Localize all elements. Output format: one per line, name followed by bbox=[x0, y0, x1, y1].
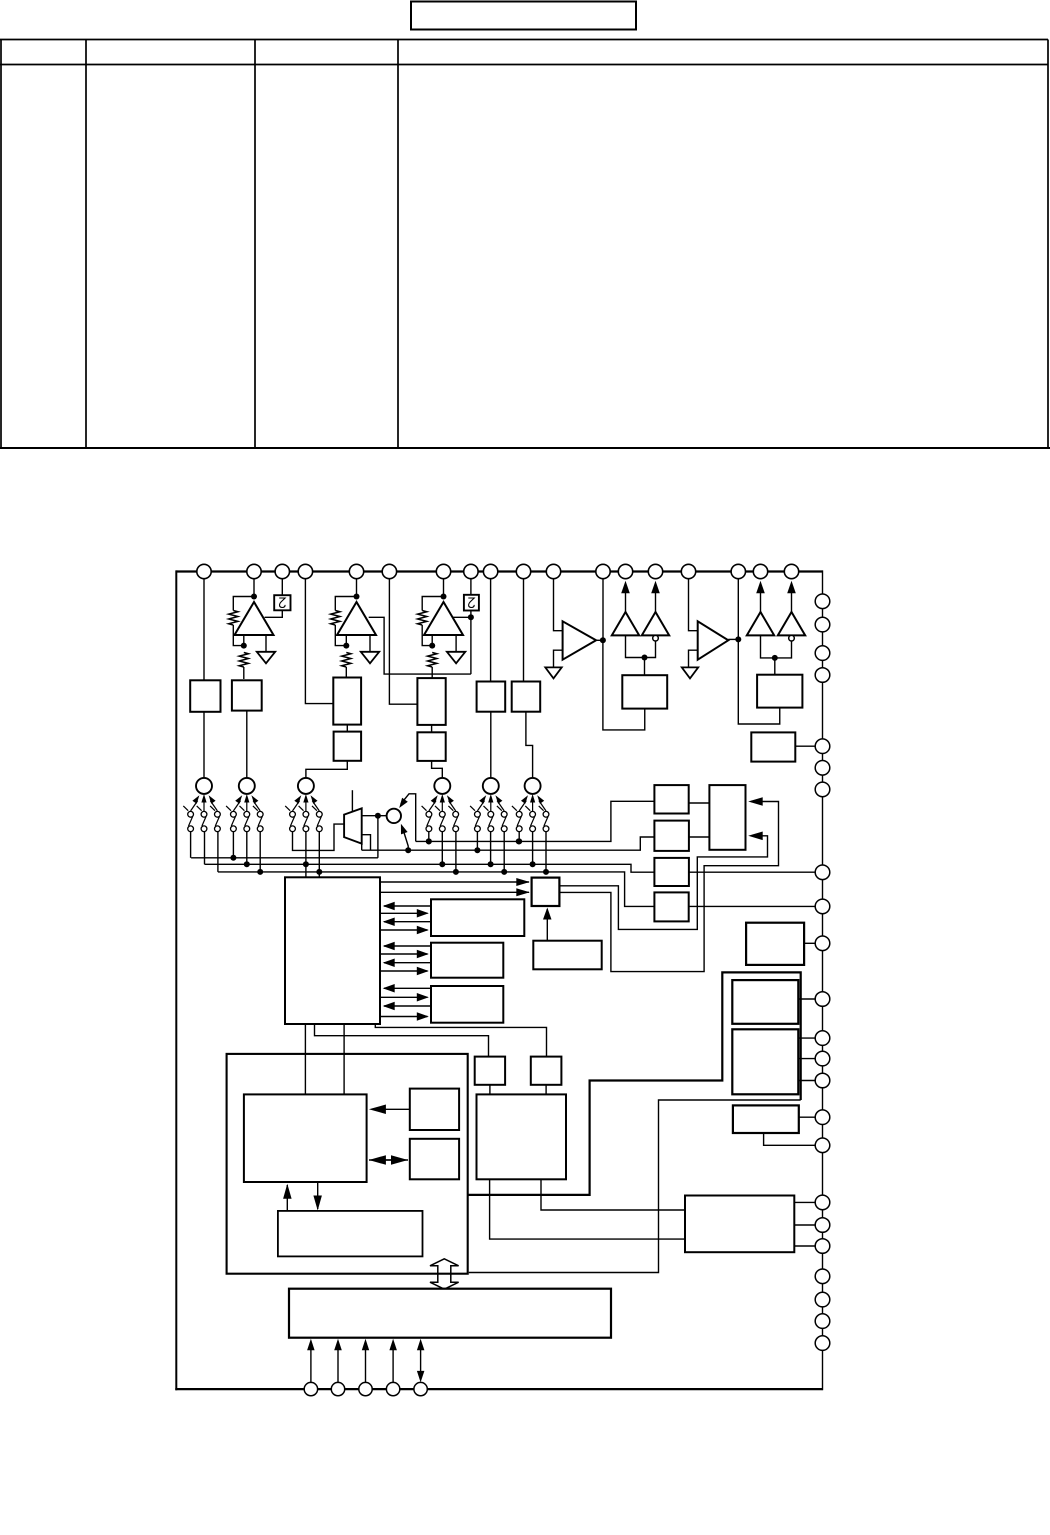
wire W to Y a bbox=[541, 1179, 685, 1210]
wire driver arrow left bbox=[625, 593, 627, 612]
selector switch at x=246.8 bbox=[226, 778, 263, 832]
wire join to block bbox=[774, 658, 776, 675]
node buffer A2 output bbox=[735, 636, 741, 642]
wire E to pin bbox=[689, 905, 816, 907]
wire buffer A2 output bbox=[728, 638, 738, 640]
wire S3 left contact to mux bbox=[293, 824, 345, 850]
wire J to M arrow 2 bbox=[380, 970, 428, 972]
wire B4 to switch S3 bbox=[306, 761, 347, 778]
wire pin 10 drop bbox=[523, 572, 525, 682]
block H2 bbox=[732, 1029, 798, 1094]
block V bbox=[475, 1057, 505, 1085]
node mux output bbox=[375, 813, 381, 819]
wire J to N arrow bbox=[380, 996, 428, 998]
block B4 bbox=[334, 732, 362, 761]
wire J to K arrow 1 bbox=[380, 881, 529, 883]
wire monitor to pin bbox=[795, 745, 815, 747]
wire J to V route bbox=[315, 1024, 489, 1057]
wire U to W bbox=[545, 1085, 547, 1095]
wire feedback bottom bbox=[422, 625, 432, 646]
wire A to B bbox=[689, 802, 710, 804]
selector switch at x=204.0 bbox=[183, 778, 220, 832]
ground bbox=[257, 652, 275, 664]
wire B1 to switch S1 bbox=[203, 712, 205, 778]
ground bbox=[545, 667, 561, 678]
block R bbox=[410, 1089, 459, 1130]
wire J to N arrow 2 bbox=[380, 1016, 428, 1018]
wire O to K arrow bbox=[546, 909, 548, 941]
title box bbox=[411, 2, 636, 30]
wire resistor to block bbox=[345, 667, 347, 679]
left border wire bbox=[175, 570, 177, 1390]
node op-amp top junction bbox=[251, 594, 257, 600]
wire driver join bbox=[626, 635, 656, 657]
wire J to M arrow bbox=[380, 953, 428, 955]
wire S4 contacts to buses bbox=[428, 832, 430, 842]
block E bbox=[654, 892, 688, 921]
block Z host interface bbox=[289, 1289, 611, 1338]
wire W to Y b bbox=[490, 1179, 685, 1239]
block B6 bbox=[417, 732, 445, 761]
wire J to Q a bbox=[304, 1024, 306, 1094]
block B tall bbox=[709, 785, 745, 850]
wire Y to pin a bbox=[794, 1201, 815, 1203]
wire mux output bbox=[362, 815, 387, 817]
block T ram bbox=[278, 1211, 423, 1257]
node driver join bbox=[772, 655, 778, 661]
block W bbox=[477, 1094, 567, 1179]
wire driver arrow left bbox=[760, 593, 762, 612]
wire S3 contacts to DSP bbox=[305, 832, 307, 878]
divider box 1/2 for U3 bbox=[464, 595, 479, 611]
wire Q to T arrow down bbox=[317, 1182, 319, 1196]
block A bbox=[654, 785, 688, 813]
wire mode throw 1 bbox=[401, 794, 416, 842]
wire feedback top bbox=[422, 597, 443, 611]
wire buffer - input to ground bbox=[554, 650, 563, 667]
driver amplifier left bbox=[612, 612, 639, 635]
pins top row bbox=[197, 564, 799, 578]
op-amp amplifier triangle bbox=[424, 602, 463, 635]
wire pin to op-amp input node bbox=[356, 572, 358, 597]
wire L to J arrow bbox=[384, 905, 431, 907]
resistor input bbox=[342, 653, 351, 668]
mode switch circle bbox=[387, 809, 401, 823]
wire buffer + input bbox=[689, 572, 698, 631]
block B2 bbox=[232, 680, 262, 710]
block O oscillator bbox=[533, 941, 601, 970]
wire J to L arrow bbox=[380, 912, 428, 914]
wire G to pin bbox=[804, 942, 815, 944]
resistor feedback bbox=[418, 611, 427, 626]
block driver source bbox=[622, 675, 667, 708]
wire M to J arrow 2 bbox=[384, 962, 431, 964]
bottom bus rail bbox=[175, 1388, 822, 1390]
pins right column bbox=[815, 594, 830, 1350]
wire pin 1 drop bbox=[203, 572, 205, 681]
wire C to B bbox=[689, 836, 710, 838]
wire buffer A1 output bbox=[596, 639, 603, 641]
wire Y to pin b bbox=[794, 1224, 815, 1226]
node buffer A1 output bbox=[600, 637, 606, 643]
wire H1 to pin bbox=[798, 998, 815, 1000]
right pin column wire bbox=[822, 570, 824, 1343]
wire B7 to switch S5 bbox=[490, 712, 492, 778]
block Y bbox=[685, 1196, 794, 1253]
divider box 1/2 for U1 bbox=[274, 595, 290, 610]
selector switch at x=532.6 bbox=[512, 778, 549, 832]
block H1 bbox=[732, 980, 798, 1024]
block G bbox=[746, 923, 804, 965]
block M bbox=[431, 943, 503, 978]
bus line L0 to block A bbox=[416, 801, 655, 841]
block S bbox=[410, 1139, 459, 1180]
inverter bubble bbox=[653, 635, 659, 641]
wire B5 to B6 bbox=[431, 725, 433, 732]
wire bottom-right riser bbox=[822, 1350, 824, 1390]
wire B2 to switch S2 bbox=[246, 711, 248, 778]
wire B3 to B4 bbox=[346, 725, 348, 732]
node inverting input bbox=[429, 643, 435, 649]
wire ground stub bbox=[369, 635, 371, 652]
parts table frame bbox=[0, 40, 1050, 449]
resistor input bbox=[239, 653, 248, 668]
wire mode throw 2 bbox=[403, 828, 409, 850]
wire H2 to pin c bbox=[798, 1080, 815, 1082]
block Q cpu bbox=[244, 1094, 367, 1182]
resistor feedback bbox=[229, 611, 238, 626]
block monitor D2 bbox=[751, 732, 795, 761]
wire pin 16 to node bbox=[737, 572, 739, 640]
wire block loop to output pin bbox=[738, 640, 779, 724]
wire R to Q arrow bbox=[372, 1108, 410, 1110]
wire buffer + input bbox=[554, 572, 563, 631]
bus line L2 short bbox=[191, 857, 378, 859]
wire Z pin double arrow bbox=[420, 1349, 422, 1371]
wire S5 contacts to buses bbox=[476, 832, 478, 851]
block B5 bbox=[417, 678, 445, 725]
wire pin 12 to node bbox=[602, 572, 604, 641]
wire mux node to bus L2 bbox=[377, 816, 379, 858]
wire S6 contacts to buses bbox=[518, 832, 520, 842]
op-amp amplifier triangle bbox=[235, 602, 274, 635]
wire pin 4 to block B3 bbox=[305, 572, 333, 704]
wire driver join bbox=[761, 635, 792, 658]
wire J to Q b bbox=[343, 1024, 345, 1094]
block H outer boundary bbox=[468, 972, 801, 1195]
wire pin to divider U3 bbox=[470, 572, 472, 595]
bus line L4 to block E bbox=[218, 872, 655, 907]
wire driver arrow right bbox=[655, 593, 657, 612]
wire S1 contacts to buses bbox=[190, 832, 192, 858]
wire Q S double arrow bbox=[384, 1159, 394, 1161]
wire Z pin arrows bbox=[310, 1349, 312, 1383]
wire X bottom to pin bbox=[764, 1133, 816, 1145]
wire feedback top bbox=[335, 597, 356, 611]
power bus top rail bbox=[176, 570, 822, 572]
selector switch at x=490.8 bbox=[470, 778, 507, 832]
wire J to U route bbox=[375, 1024, 546, 1057]
wire driver arrow right bbox=[791, 593, 793, 612]
wire mux corner stub to L1 bbox=[361, 844, 363, 851]
block D bbox=[654, 858, 689, 886]
wire mux lower output bbox=[362, 835, 371, 851]
wire V to W bbox=[489, 1085, 491, 1095]
ground bbox=[447, 652, 465, 664]
wire B6 to switch S4 bbox=[432, 761, 443, 778]
resistor input bbox=[428, 653, 437, 668]
block X bbox=[733, 1105, 799, 1133]
op-amp amplifier triangle bbox=[337, 602, 376, 635]
resistor feedback bbox=[331, 611, 340, 626]
node op-amp top junction bbox=[354, 594, 360, 600]
wire K output 1 route to B arrow bbox=[559, 836, 767, 930]
inverter bubble bbox=[789, 635, 795, 641]
wire U3 output to node bbox=[453, 616, 471, 618]
selector switch at x=442.3 bbox=[422, 778, 459, 832]
wire resistor to block bbox=[431, 667, 433, 679]
driver amplifier right bbox=[642, 612, 669, 635]
wire feedback bottom bbox=[233, 625, 244, 646]
buffer amplifier triangle bbox=[698, 621, 729, 659]
wire L to J arrow 2 bbox=[384, 921, 431, 923]
wire T to Q arrow up bbox=[286, 1198, 288, 1211]
mux block bbox=[344, 808, 362, 843]
wire J to L arrow 2 bbox=[380, 929, 428, 931]
wire B8 to switch S6 bbox=[526, 712, 533, 778]
node U3 output bbox=[468, 614, 474, 620]
block B8 bbox=[512, 682, 541, 712]
wire N to J arrow 2 bbox=[384, 1005, 431, 1007]
wire inverting input stub bbox=[431, 635, 433, 646]
wire U1 output to divider bbox=[265, 610, 283, 617]
wire H boundary return bbox=[469, 1100, 801, 1273]
wire pin 6 to block B5 bbox=[389, 572, 417, 705]
block B7 bbox=[477, 682, 506, 712]
wire pin to op-amp input node bbox=[443, 572, 445, 597]
wire block D output to pin bbox=[689, 871, 816, 873]
pins bottom row bbox=[304, 1382, 427, 1395]
wire J to K arrow 2 bbox=[380, 891, 529, 893]
wire H2 to pin b bbox=[798, 1058, 815, 1060]
ground bbox=[682, 667, 698, 678]
node driver join bbox=[642, 655, 648, 661]
wire resistor to block bbox=[243, 667, 245, 679]
wire inverting input stub bbox=[243, 635, 245, 646]
wire U3 node down to U2 route bbox=[470, 611, 472, 675]
block N bbox=[431, 986, 503, 1023]
wire Y to pin c bbox=[794, 1245, 815, 1247]
block B1 bbox=[190, 680, 220, 712]
wire feedback top bbox=[233, 597, 254, 611]
bus line L1 to block C bbox=[362, 837, 655, 850]
block U bbox=[531, 1057, 562, 1085]
wire pin to op-amp input node bbox=[253, 572, 255, 597]
wire N to J arrow bbox=[384, 987, 431, 989]
wire inverting input stub bbox=[345, 635, 347, 646]
wire X to pin bbox=[799, 1116, 815, 1118]
block K bbox=[532, 878, 560, 906]
block C bbox=[654, 821, 689, 851]
wire pin to divider U1 bbox=[281, 572, 283, 596]
buffer amplifier triangle bbox=[563, 621, 597, 659]
wire block loop to output pin bbox=[603, 640, 645, 730]
block L bbox=[431, 899, 524, 936]
wire feedback bottom bbox=[335, 625, 346, 646]
bus line L3 to block D bbox=[205, 864, 655, 872]
bus double arrow to Z bbox=[430, 1259, 459, 1289]
wire K output 2 route to B arrow bbox=[559, 802, 778, 972]
wire ground stub bbox=[455, 635, 457, 652]
block driver source bbox=[757, 675, 802, 708]
node op-amp top junction bbox=[441, 594, 447, 600]
node inverting input bbox=[343, 643, 349, 649]
driver amplifier right bbox=[778, 612, 805, 635]
wire S2 contacts to buses bbox=[232, 832, 234, 858]
selector switch at x=305.9 bbox=[285, 778, 322, 832]
wire U2 output route to U3 node bbox=[369, 617, 471, 674]
wire pin 9 drop bbox=[490, 572, 492, 682]
block DSP core J bbox=[285, 877, 380, 1024]
container CPU subsystem bbox=[227, 1054, 468, 1274]
wire ground stub bbox=[265, 635, 267, 652]
ground bbox=[361, 652, 379, 664]
wire join to block bbox=[644, 658, 646, 676]
node inverting input bbox=[241, 643, 247, 649]
wire H2 to pin a bbox=[798, 1037, 815, 1039]
wire buffer - input to ground bbox=[689, 650, 698, 667]
wire mux select stub bbox=[351, 790, 353, 811]
block B3 bbox=[333, 678, 361, 725]
wire M to J arrow bbox=[384, 945, 431, 947]
driver amplifier left bbox=[747, 612, 774, 635]
